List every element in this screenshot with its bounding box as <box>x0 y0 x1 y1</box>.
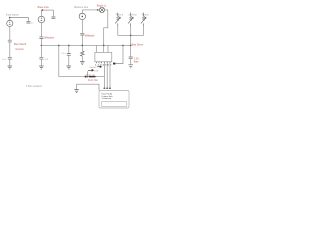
wire <box>81 20 83 33</box>
wire trimmer bus <box>118 34 144 36</box>
connector ticks <box>103 87 111 89</box>
capacitor C7 <box>67 54 71 56</box>
trimmer P2 <box>128 13 133 26</box>
wire <box>9 18 11 21</box>
node bus2 <box>58 45 60 47</box>
wire <box>130 45 132 56</box>
wire <box>40 59 42 66</box>
wire main bus <box>41 44 130 46</box>
wire <box>68 45 70 53</box>
wire <box>115 45 123 63</box>
wire left drop <box>58 45 60 76</box>
resistor R1 <box>81 51 85 56</box>
svg-text:Tone p: Tone p <box>141 13 149 16</box>
wire <box>52 10 54 17</box>
trimmer P1 <box>115 13 120 26</box>
wire <box>9 59 11 66</box>
capacitor C1 <box>26 21 30 23</box>
svg-text:Out left: Out left <box>89 66 96 69</box>
connector J1 box <box>99 91 129 109</box>
svg-text:Bias: Bias <box>134 60 139 63</box>
svg-text:Bias Driver: Bias Driver <box>132 44 144 47</box>
wire <box>87 71 89 76</box>
source V1 <box>7 20 13 26</box>
svg-text:4.7u: 4.7u <box>61 53 66 55</box>
node bus4 <box>82 45 84 47</box>
node D <box>87 76 89 78</box>
wire <box>82 9 99 11</box>
wire <box>9 27 11 40</box>
wire <box>40 23 42 37</box>
ground <box>8 66 13 69</box>
wire <box>106 63 108 89</box>
capacitor C5 <box>39 37 43 39</box>
wire <box>40 45 42 57</box>
pin wires top <box>96 45 108 52</box>
node C <box>97 9 99 11</box>
wire <box>130 59 132 65</box>
svg-text:Fuzz Out: Fuzz Out <box>88 79 98 82</box>
svg-text:1uF: 1uF <box>44 59 48 61</box>
svg-text:Distance wire: Distance wire <box>74 6 89 9</box>
capacitor C8 <box>80 33 84 35</box>
svg-text:Bias Switch: Bias Switch <box>14 43 27 46</box>
wire <box>104 10 108 46</box>
ground <box>74 90 79 93</box>
wire <box>103 63 105 89</box>
svg-text:Input signal: Input signal <box>6 13 19 16</box>
ground <box>39 66 44 69</box>
svg-text:Base drive: Base drive <box>38 6 50 9</box>
op-amp U1 <box>95 52 112 61</box>
svg-text:1n: 1n <box>31 23 34 25</box>
node B <box>42 9 44 11</box>
node A <box>9 17 11 19</box>
probe marker 2 <box>85 76 87 78</box>
ground <box>80 62 85 65</box>
wire <box>68 55 70 66</box>
svg-text:10u: 10u <box>2 59 6 61</box>
pin stubs bottom <box>96 62 110 63</box>
wire <box>40 10 42 16</box>
wire <box>9 42 11 57</box>
wire ground link <box>77 84 99 90</box>
wire <box>143 26 145 35</box>
svg-text:Ground: Ground <box>15 48 24 51</box>
probe pad right <box>89 76 97 78</box>
capacitor C2 <box>8 40 12 42</box>
wire <box>81 56 83 61</box>
capacitor C3 <box>8 57 12 59</box>
svg-text:Milliwatts: Milliwatts <box>85 35 96 38</box>
wire <box>81 35 83 45</box>
wire <box>40 39 42 46</box>
probe marker U1 out <box>113 63 115 65</box>
wire <box>27 18 29 22</box>
trimmer P3 <box>141 13 146 26</box>
source V3 <box>79 13 85 19</box>
svg-text:Fuzz p: Fuzz p <box>116 13 124 16</box>
wire long output <box>59 76 105 78</box>
ground <box>128 65 133 68</box>
wire <box>117 26 119 35</box>
node bias <box>130 45 132 47</box>
svg-text:Level p: Level p <box>129 13 138 16</box>
node bus5 <box>103 45 105 47</box>
svg-text:7.06: 7.06 <box>94 71 99 73</box>
lamp DS1 <box>99 7 104 12</box>
capacitor C4 <box>51 17 55 19</box>
wire <box>81 45 83 51</box>
node trim <box>130 35 132 37</box>
ground <box>67 66 72 69</box>
wire <box>130 26 132 35</box>
capacitor C9 <box>129 57 133 59</box>
flag row2 <box>88 70 94 72</box>
svg-text:Connector: Connector <box>102 97 112 100</box>
node out <box>122 45 124 47</box>
svg-text:Milliwatts: Milliwatts <box>44 37 55 40</box>
capacitor C6 <box>39 57 43 59</box>
wire <box>81 10 83 13</box>
wire <box>10 17 29 19</box>
source V2 <box>38 16 45 23</box>
J1 inner box <box>102 101 127 106</box>
node bus1 <box>41 45 43 47</box>
wire <box>41 9 53 11</box>
node bus3 <box>68 45 70 47</box>
wire <box>109 63 111 89</box>
svg-text:3 Wire resistors: 3 Wire resistors <box>26 85 43 88</box>
wire <box>130 35 132 45</box>
